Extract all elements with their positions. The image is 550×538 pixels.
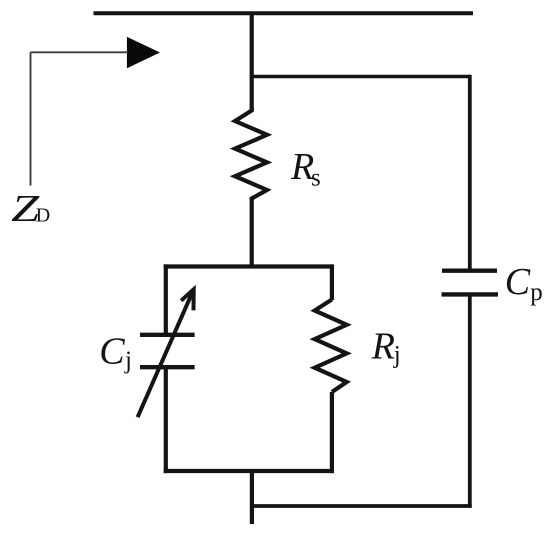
wire: center vertical from bus to Rs top	[250, 12, 254, 111]
capacitor C1 top plate (Cp)	[442, 269, 497, 273]
label ZD	[11, 188, 50, 230]
wire: bottom horizontal	[252, 504, 472, 508]
svg-text:R: R	[371, 325, 395, 367]
label Rs	[290, 146, 321, 192]
wire: right vertical upper (to Cp)	[468, 75, 472, 271]
capacitor Cj top plate	[140, 333, 195, 337]
wire: box top side	[164, 264, 334, 268]
wire: box bottom side	[164, 469, 334, 473]
impedance pointer arrow head (ZD)	[127, 37, 160, 69]
top bus bar	[94, 11, 474, 15]
wire: box right lower (Rj bottom to box bottom)	[330, 392, 334, 473]
svg-text:D: D	[36, 205, 50, 227]
wire: box left upper (to Cj top plate)	[164, 264, 168, 334]
wire: box right upper (to Rj top)	[330, 264, 334, 300]
wire: right vertical lower (Cp to bottom wire)	[468, 294, 472, 507]
wire: center vertical Rs bottom to box top	[250, 199, 254, 269]
label Cj	[99, 331, 132, 374]
svg-text:C: C	[505, 261, 531, 303]
variable capacitor arrow shaft (Cj)	[138, 289, 194, 417]
resistor Rs (zigzag)	[235, 109, 267, 201]
wire: box left lower (Cj bottom plate to box bottom)	[164, 367, 168, 473]
capacitor C1 bottom plate (Cp)	[442, 292, 499, 296]
label Rj	[371, 325, 401, 368]
capacitor Cj bottom plate	[140, 365, 195, 369]
wire: bottom center stub	[250, 471, 254, 524]
svg-text:j: j	[393, 341, 401, 368]
svg-text:s: s	[311, 164, 321, 191]
impedance pointer line horizontal	[31, 51, 129, 53]
resistor Rj (zigzag)	[315, 300, 347, 393]
svg-text:j: j	[124, 347, 132, 374]
svg-text:C: C	[99, 331, 125, 373]
svg-text:p: p	[530, 279, 543, 306]
wire: horizontal branch to Cp	[252, 75, 470, 79]
label Cp	[505, 261, 543, 306]
impedance pointer line vertical	[30, 52, 32, 185]
variable capacitor arrowhead (Cj)	[181, 289, 194, 310]
